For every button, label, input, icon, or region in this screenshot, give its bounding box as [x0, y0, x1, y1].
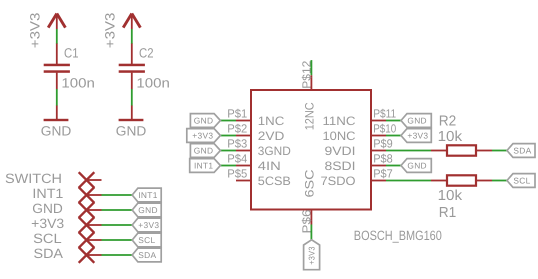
- wire net GND: [220, 150, 236, 152]
- pin P$2: [236, 135, 251, 137]
- svg-text:BOSCH_BMG160: BOSCH_BMG160: [354, 228, 442, 243]
- svg-text:SDA: SDA: [34, 246, 64, 261]
- svg-text:R1: R1: [439, 205, 457, 221]
- svg-text:C2: C2: [139, 45, 154, 60]
- net flag +3V3: [401, 129, 431, 143]
- wire net GND: [220, 120, 236, 122]
- wire net GND: [386, 120, 401, 122]
- svg-text:INT1: INT1: [138, 190, 157, 200]
- ground symbol under C2: [131, 106, 133, 120]
- pin P$5: [236, 180, 251, 182]
- svg-text:P$2: P$2: [227, 122, 247, 136]
- svg-text:P$10: P$10: [373, 122, 396, 136]
- net flag +3V3: [187, 129, 221, 143]
- svg-text:GND: GND: [32, 201, 63, 216]
- svg-text:2VD: 2VD: [258, 129, 285, 143]
- pin P$7: [371, 180, 386, 182]
- pin stub: [87, 254, 102, 256]
- pin P$4: [236, 165, 251, 167]
- svg-text:8SDI: 8SDI: [325, 159, 356, 173]
- svg-text:SDA: SDA: [138, 250, 156, 260]
- svg-text:SCL: SCL: [513, 175, 530, 185]
- pin P$3: [236, 150, 251, 152]
- svg-text:4IN: 4IN: [258, 159, 281, 173]
- svg-text:GND: GND: [194, 115, 214, 125]
- svg-text:10k: 10k: [438, 188, 463, 204]
- svg-text:10k: 10k: [438, 129, 463, 145]
- svg-text:100n: 100n: [136, 76, 170, 91]
- svg-text:P$9: P$9: [373, 137, 393, 151]
- wire net +3V3: [102, 224, 133, 226]
- svg-text:GND: GND: [407, 160, 427, 170]
- net flag INT1: [132, 188, 161, 202]
- net flag GND: [401, 159, 431, 173]
- svg-text:9VDI: 9VDI: [325, 144, 356, 158]
- svg-text:P$5: P$5: [227, 167, 247, 181]
- pin cross (unconnected pin marker) SDA: [79, 247, 95, 263]
- net flag INT1: [190, 159, 221, 173]
- svg-text:+3V3: +3V3: [192, 130, 213, 140]
- pin P$10: [371, 135, 386, 137]
- pin P$12: [310, 75, 312, 90]
- net flag GND: [190, 144, 220, 158]
- wire net from pin to R1: [386, 180, 431, 182]
- pin stub: [87, 224, 102, 226]
- pin cross (unconnected pin marker) SCL: [79, 232, 95, 248]
- net flag SCL: [132, 233, 161, 247]
- svg-text:+3V3: +3V3: [307, 246, 317, 265]
- svg-text:100n: 100n: [61, 76, 95, 91]
- net flag +3V3 (bottom): [304, 240, 320, 270]
- svg-text:12NC: 12NC: [302, 102, 316, 130]
- svg-text:SCL: SCL: [33, 231, 62, 246]
- pin stub: [87, 179, 102, 181]
- wire net SDA: [102, 254, 133, 256]
- svg-text:+3V3: +3V3: [138, 220, 159, 230]
- svg-text:10NC: 10NC: [323, 129, 356, 143]
- wire net SCL: [492, 180, 507, 182]
- wire net +3V3: [220, 135, 236, 137]
- pin P$9: [371, 150, 386, 152]
- svg-text:GND: GND: [41, 123, 72, 138]
- IC U1 BOSCH_BMG160 body: [251, 90, 371, 210]
- svg-text:+3V3: +3V3: [31, 216, 64, 231]
- svg-text:SDA: SDA: [513, 145, 531, 155]
- svg-text:P$11: P$11: [373, 107, 396, 121]
- svg-text:GND: GND: [116, 123, 147, 138]
- resistor R2: [431, 150, 446, 152]
- svg-text:+3V3: +3V3: [28, 13, 43, 49]
- net flag GND: [190, 114, 220, 128]
- svg-text:6SC: 6SC: [302, 169, 316, 197]
- svg-text:P$1: P$1: [227, 107, 247, 121]
- svg-text:R2: R2: [439, 113, 457, 129]
- pin cross (unconnected pin marker) SWITCH: [79, 172, 95, 188]
- svg-text:SCL: SCL: [138, 235, 155, 245]
- svg-text:GND: GND: [407, 115, 427, 125]
- pin cross (unconnected pin marker) INT1: [79, 187, 95, 203]
- svg-text:1NC: 1NC: [258, 114, 285, 128]
- svg-text:5CSB: 5CSB: [258, 174, 291, 188]
- svg-text:P$7: P$7: [373, 167, 393, 181]
- pin cross (unconnected pin marker) +3V3: [79, 217, 95, 233]
- svg-text:7SDO: 7SDO: [321, 174, 356, 188]
- capacitor C1: [56, 44, 58, 65]
- wire net +3V3 (P$6): [310, 225, 312, 240]
- capacitor C2: [131, 44, 133, 65]
- net flag SCL: [507, 174, 535, 188]
- svg-text:INT1: INT1: [32, 186, 63, 201]
- pin stub: [87, 194, 102, 196]
- svg-text:+3V3: +3V3: [103, 13, 118, 49]
- wire net GND: [386, 165, 401, 167]
- ground symbol under C1: [56, 106, 58, 120]
- pin P$1: [236, 120, 251, 122]
- net flag SDA: [507, 144, 535, 158]
- wire net GND: [102, 209, 133, 211]
- wire net to P$12: [310, 60, 312, 75]
- svg-text:11NC: 11NC: [323, 114, 356, 128]
- svg-text:P$8: P$8: [373, 152, 393, 166]
- pin stub: [87, 209, 102, 211]
- svg-text:C1: C1: [64, 45, 79, 60]
- supply +3V3 arrow (C1): [48, 14, 65, 28]
- wire net SCL: [102, 239, 133, 241]
- net flag GND: [401, 114, 431, 128]
- svg-text:SWITCH: SWITCH: [5, 171, 62, 186]
- pin P$11: [371, 120, 386, 122]
- wire net SDA: [492, 150, 507, 152]
- svg-text:GND: GND: [194, 145, 214, 155]
- svg-text:P$4: P$4: [227, 152, 247, 166]
- resistor R1: [431, 180, 446, 182]
- net flag +3V3: [132, 218, 161, 232]
- svg-text:P$3: P$3: [227, 137, 247, 151]
- pin cross (unconnected pin marker) GND: [79, 202, 95, 218]
- wire net +3V3: [386, 135, 401, 137]
- pin P$6: [310, 210, 312, 225]
- supply +3V3 arrow (C2): [123, 14, 140, 28]
- wire net INT1: [102, 194, 133, 196]
- wire: [56, 29, 58, 44]
- wire: [131, 89, 133, 106]
- pin stub: [87, 239, 102, 241]
- wire: [131, 29, 133, 44]
- net flag SDA: [132, 248, 161, 262]
- net flag GND: [132, 203, 161, 217]
- svg-text:+3V3: +3V3: [407, 130, 428, 140]
- pin P$8: [371, 165, 386, 167]
- svg-text:INT1: INT1: [194, 160, 213, 170]
- wire net INT1: [220, 165, 236, 167]
- svg-text:3GND: 3GND: [258, 144, 291, 158]
- wire net from pin to R2: [386, 150, 431, 152]
- wire: [56, 89, 58, 106]
- svg-text:GND: GND: [138, 205, 158, 215]
